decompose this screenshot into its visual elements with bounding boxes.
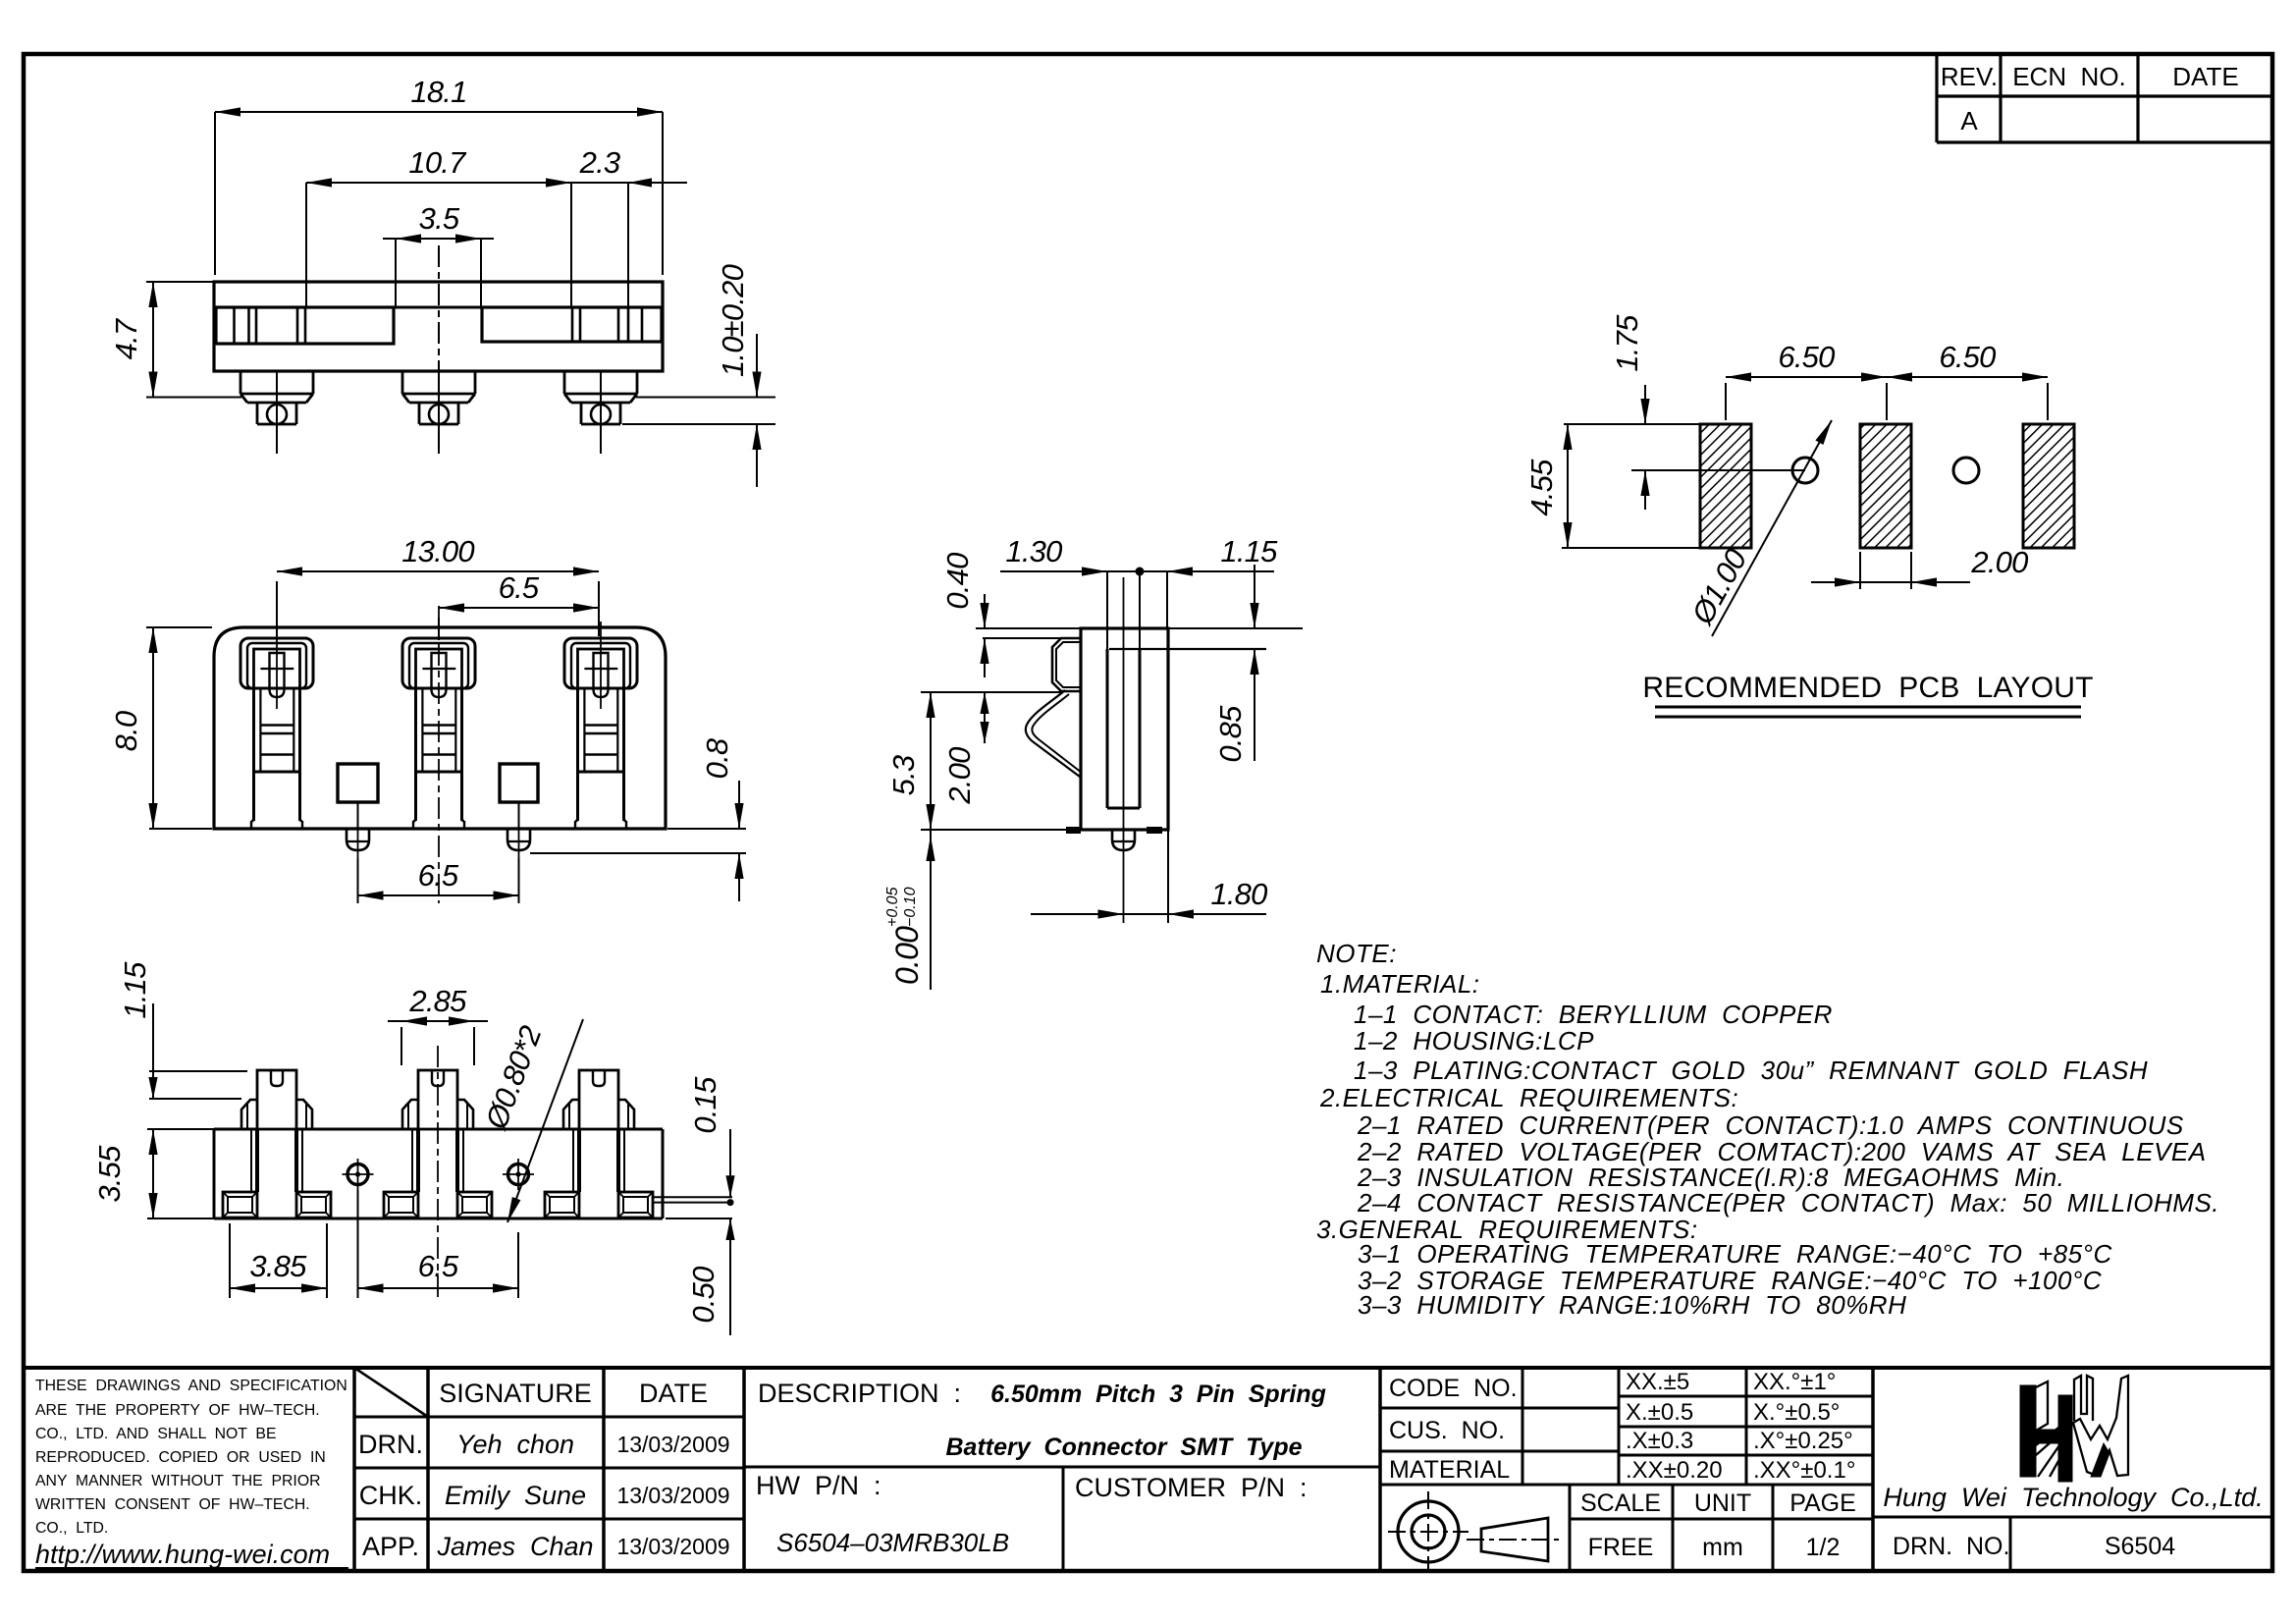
svg-text:SIGNATURE: SIGNATURE [439,1379,592,1408]
dimension 2.00 pcb [1859,552,1861,589]
svg-text:Hung Wei Technology Co.,Ltd: Hung Wei Technology Co.,Ltd. [1883,1483,2263,1512]
svg-text:−0.10: −0.10 [902,887,919,927]
svg-text:1–3 PLATING:CONTACT GOLD 30: 1–3 PLATING:CONTACT GOLD 30u” REMNANT GO… [1354,1056,2148,1085]
pcb pad 3 [2023,424,2074,548]
svg-text:1–2 HOUSING:LCP: 1–2 HOUSING:LCP [1354,1026,1594,1056]
svg-text:0.15: 0.15 [688,1076,722,1134]
pcb pad 1 [1700,424,1751,548]
svg-text:HW P/N :: HW P/N : [756,1471,881,1500]
svg-text:1.75: 1.75 [1610,314,1644,372]
svg-text:THESE DRAWINGS AND SPECIFIC: THESE DRAWINGS AND SPECIFICATION [35,1378,347,1394]
dimension 0.8 [667,828,746,830]
svg-text:CO., LTD. AND SHALL NOT B: CO., LTD. AND SHALL NOT BE [35,1426,277,1442]
svg-text:6.5: 6.5 [499,570,540,605]
bottom view hole mark 1 [347,1164,368,1185]
dimension 6.50 right [2047,383,2049,420]
side view contact nose [1052,638,1081,691]
svg-text:X.±0.5: X.±0.5 [1626,1399,1693,1426]
svg-text:6.5: 6.5 [418,858,459,893]
leader diameter 1.00 [1712,420,1832,636]
top view body parting line [214,306,663,309]
bottom view contact 1 [257,1070,296,1129]
svg-text:S6504: S6504 [2105,1533,2175,1560]
projection target symbol [1398,1501,1459,1562]
side view bottom face line [921,829,1081,831]
dimension 1.30 and 1.15 [1106,571,1108,649]
svg-text:mm: mm [1702,1534,1743,1561]
dimension 3.85 [229,1223,231,1298]
dimension 1.0 plus-minus 0.20 [636,397,775,399]
svg-text:2.3: 2.3 [579,145,620,180]
dimension 1.75 [1631,469,1805,471]
svg-text:1.15: 1.15 [118,961,152,1019]
svg-text:1.80: 1.80 [1210,877,1267,911]
svg-text:2.00: 2.00 [942,747,977,805]
svg-text:CHK.: CHK. [359,1481,423,1510]
svg-text:.X±0.3: .X±0.3 [1626,1428,1693,1454]
svg-text:3–3 HUMIDITY RANGE:10%RH TO: 3–3 HUMIDITY RANGE:10%RH TO 80%RH [1358,1290,1906,1320]
svg-text:1–1 CONTACT: BERYLLIUM COPP: 1–1 CONTACT: BERYLLIUM COPPER [1354,1000,1833,1029]
svg-text:3.5: 3.5 [419,201,460,236]
top view right contact band [482,307,662,342]
svg-text:2–4 CONTACT RESISTANCE(PER: 2–4 CONTACT RESISTANCE(PER CONTACT) Max:… [1357,1188,2219,1218]
dimension 2.3 [627,183,629,307]
svg-text:PAGE: PAGE [1789,1489,1856,1517]
top view pin 2 [401,371,404,394]
svg-text:10.7: 10.7 [408,145,467,180]
svg-text:2.00: 2.00 [1970,545,2028,579]
side view slot [1109,648,1266,650]
title block grid right [1522,1368,1524,1485]
svg-text:.XX°±0.1°: .XX°±0.1° [1753,1457,1855,1484]
leader diameter 0.80 x2 [507,1019,583,1222]
svg-text:Emily Sune: Emily Sune [445,1481,586,1510]
front view window 2 [500,764,538,802]
bottom view contact 3 [579,1070,618,1129]
svg-text:http://www.hung-wei.com: http://www.hung-wei.com [35,1540,330,1569]
svg-text:2.85: 2.85 [408,984,467,1018]
svg-text:XX.±5: XX.±5 [1626,1369,1689,1395]
pcb hole 2 [1953,458,1979,483]
hw logo [2020,1385,2036,1477]
svg-text:13/03/2009: 13/03/2009 [616,1432,729,1457]
revision table [1935,56,1938,142]
svg-text:0.40: 0.40 [940,553,975,610]
svg-text:A: A [1960,106,1978,135]
front view window pin link 1 [357,802,359,828]
svg-text:DRN. NO.: DRN. NO. [1893,1533,2009,1560]
svg-text:1.MATERIAL:: 1.MATERIAL: [1320,969,1480,999]
svg-text:WRITTEN CONSENT OF HW–TECH.: WRITTEN CONSENT OF HW–TECH. [35,1496,310,1513]
side view nose top extension line [983,637,1061,639]
svg-text:18.1: 18.1 [410,75,466,109]
dimension 6.5 upper [438,618,440,640]
svg-text:XX.°±1°: XX.°±1° [1753,1369,1836,1395]
front view solder pin 2 [507,829,530,850]
bottom view body band [213,1129,216,1218]
dimension 2.00 [981,691,1061,693]
dimension 1.15 bottom view [149,1070,247,1072]
top view center axis [438,245,440,454]
svg-text:2–1 RATED CURRENT(PER CONTA: 2–1 RATED CURRENT(PER CONTACT):1.0 AMPS … [1357,1110,2184,1140]
side view spring contact [1026,690,1080,777]
side view body outline [1081,628,1168,830]
svg-text:13/03/2009: 13/03/2009 [616,1534,729,1559]
svg-text:1.0±0.20: 1.0±0.20 [716,264,750,377]
svg-text:3–1 OPERATING TEMPERATURE R: 3–1 OPERATING TEMPERATURE RANGE:−40°C TO… [1358,1239,2112,1269]
svg-text:APP.: APP. [362,1532,419,1561]
side view smt foot right [1147,827,1162,834]
dimension 8.0 [146,626,212,628]
svg-text:DATE: DATE [2172,62,2238,91]
dimension 0.00 tolerance [930,830,932,990]
side view solder pin [1112,830,1135,850]
svg-text:Battery Connector SMT Type: Battery Connector SMT Type [945,1434,1302,1461]
svg-text:CO., LTD.: CO., LTD. [35,1520,108,1537]
dimension 13.00 [276,581,278,636]
svg-text:1.15: 1.15 [1220,534,1278,568]
svg-text:RECOMMENDED PCB LAYOUT: RECOMMENDED PCB LAYOUT [1642,672,2093,704]
front view contact 3 [564,638,637,688]
svg-text:4.55: 4.55 [1524,459,1559,516]
dimension 4.55 [1564,423,1700,425]
svg-text:4.7: 4.7 [109,317,143,359]
projection cone symbol [1481,1518,1548,1561]
dimension 1.80 [1167,830,1169,923]
front view window pin link 2 [518,802,520,828]
svg-text:6.50: 6.50 [1778,340,1835,374]
svg-text:DESCRIPTION :: DESCRIPTION : [758,1379,961,1408]
svg-text:CODE NO.: CODE NO. [1389,1375,1518,1402]
svg-text:1.30: 1.30 [1005,534,1062,568]
svg-text:3.55: 3.55 [92,1145,127,1203]
scale unit page grid [1569,1485,1572,1570]
svg-text:5.3: 5.3 [886,755,921,795]
front view window 1 [338,764,378,802]
svg-text:MATERIAL: MATERIAL [1389,1456,1510,1484]
svg-text:S6504–03MRB30LB: S6504–03MRB30LB [776,1528,1009,1557]
top view pin 3 [563,371,566,394]
dimension 3.5 [395,239,397,307]
svg-text:UNIT: UNIT [1694,1489,1751,1517]
svg-text:ARE THE PROPERTY OF HW–TEC: ARE THE PROPERTY OF HW–TECH. [35,1402,320,1419]
svg-text:2.ELECTRICAL REQUIREMENTS:: 2.ELECTRICAL REQUIREMENTS: [1319,1083,1738,1112]
svg-text:SCALE: SCALE [1580,1489,1661,1517]
front view solder pin 1 [347,829,369,850]
pcb hole 1 [1792,458,1818,483]
svg-text:6.50mm Pitch 3 Pin Spring: 6.50mm Pitch 3 Pin Spring [990,1380,1326,1408]
svg-text:0.8: 0.8 [700,737,734,779]
bottom view hole mark 2 [508,1164,529,1185]
svg-text:8.0: 8.0 [109,711,143,751]
svg-text:CUS. NO.: CUS. NO. [1389,1417,1505,1444]
svg-text:0.85: 0.85 [1213,705,1248,763]
svg-text:James Chan: James Chan [436,1532,593,1561]
svg-text:DRN.: DRN. [358,1430,423,1459]
dimension 18.1 [214,112,216,275]
dimension 2.85 [400,1027,402,1065]
svg-text:+0.05: +0.05 [884,887,901,927]
svg-text:6.50: 6.50 [1939,340,1996,374]
svg-text:6.5: 6.5 [418,1249,459,1283]
svg-text:13.00: 13.00 [401,534,474,568]
svg-text:FREE: FREE [1588,1534,1654,1561]
side view smt foot left [1066,827,1081,834]
svg-text:Yeh chon: Yeh chon [456,1430,574,1459]
top view left contact band [216,307,394,344]
side view top face line [976,627,1303,629]
svg-text:NOTE:: NOTE: [1316,939,1397,968]
svg-text:ANY MANNER WITHOUT THE PRI: ANY MANNER WITHOUT THE PRIOR [35,1473,321,1489]
svg-text:REPRODUCED. COPIED OR USED: REPRODUCED. COPIED OR USED IN [35,1449,326,1466]
svg-text:13/03/2009: 13/03/2009 [616,1483,729,1508]
dimension 0.50 [666,1218,732,1219]
dimension 3.55 [147,1128,214,1130]
dimension 0.40 [984,594,986,628]
dimension 0.85 [1254,565,1255,628]
svg-text:0.00: 0.00 [889,926,925,985]
svg-text:ECN NO.: ECN NO. [2012,62,2126,91]
front view contact 2 [402,638,475,688]
top view pin 1 [240,371,242,394]
dimension 4.7 [146,281,214,283]
svg-text:CUSTOMER P/N :: CUSTOMER P/N : [1075,1473,1308,1502]
drn no row [1873,1516,2272,1519]
dimension 5.3 [921,691,981,693]
title block grid left [24,1366,2272,1370]
front view body outline [214,627,666,829]
svg-text:1/2: 1/2 [1806,1534,1841,1561]
svg-text:.XX±0.20: .XX±0.20 [1626,1457,1723,1484]
pcb pad 2 [1860,424,1911,548]
dimension 6.5 lower front [357,858,359,903]
svg-text:.X°±0.25°: .X°±0.25° [1753,1428,1853,1454]
dimension 6.5 bottom view [357,1190,359,1298]
svg-text:DATE: DATE [639,1379,708,1408]
dimension 10.7 [305,183,307,307]
dimension 6.50 left [1725,383,1727,420]
svg-text:3.85: 3.85 [249,1249,307,1283]
top view body outline [214,282,663,371]
description cell [744,1466,1380,1469]
svg-text:REV.: REV. [1941,62,1998,91]
svg-text:X.°±0.5°: X.°±0.5° [1753,1399,1840,1426]
dimension 0.15 [652,1196,732,1198]
front view contact 1 [240,638,313,688]
bottom view contact 2 [418,1070,457,1129]
svg-text:0.50: 0.50 [686,1267,721,1324]
